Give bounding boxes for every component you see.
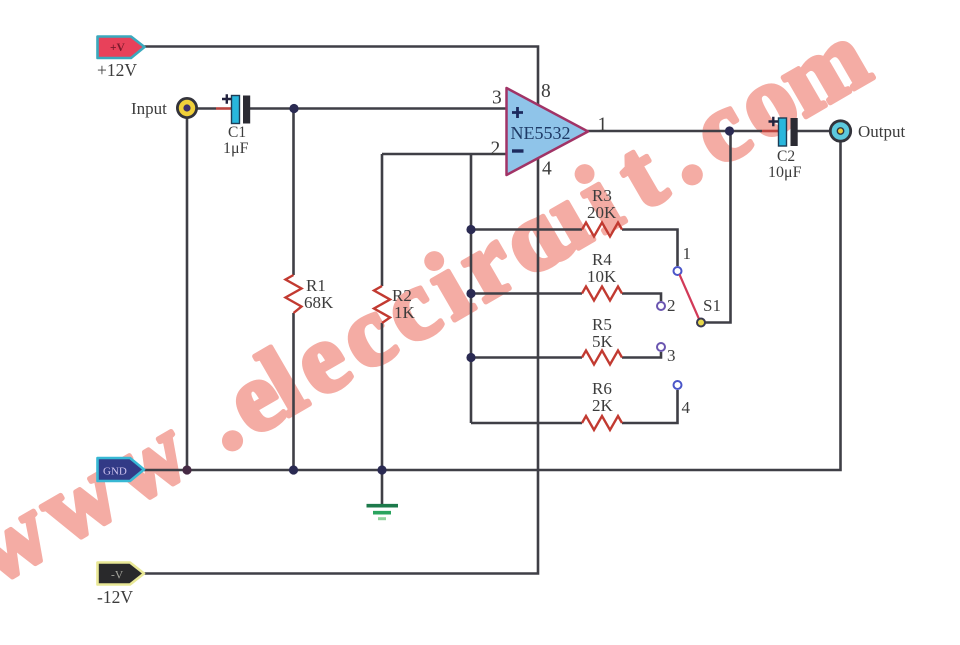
svg-text:-12V: -12V bbox=[97, 587, 133, 607]
wire R1 branch vertical bbox=[292, 109, 295, 471]
wire R3 row bbox=[471, 230, 678, 267]
svg-text:1: 1 bbox=[598, 115, 608, 136]
switch S1 bbox=[657, 244, 721, 417]
wire GND rail to output jack ground bbox=[144, 141, 841, 470]
wire red stub at C1 positive bbox=[216, 107, 231, 110]
node junction output branch bbox=[725, 126, 734, 135]
wire R5 row bbox=[471, 352, 661, 358]
resistor R1 bbox=[286, 275, 335, 313]
+V power tag bbox=[98, 37, 145, 59]
wire R6 row bbox=[471, 390, 678, 423]
svg-text:3: 3 bbox=[667, 346, 676, 365]
node junction R4 tap bbox=[466, 289, 475, 298]
resistor R3 bbox=[582, 186, 622, 237]
wire switch common to output branch bbox=[705, 131, 731, 323]
svg-text:NE5532: NE5532 bbox=[511, 123, 571, 143]
wire C1 to pin3 bbox=[250, 107, 507, 110]
svg-text:4: 4 bbox=[542, 159, 552, 180]
wire +V rail to pin8 to pin4 to -V rail bbox=[144, 47, 538, 574]
switch contact 2 bbox=[657, 302, 665, 310]
svg-text:C1: C1 bbox=[228, 124, 246, 141]
svg-text:3: 3 bbox=[492, 88, 502, 109]
resistor R2 bbox=[374, 286, 416, 323]
svg-text:2K: 2K bbox=[592, 396, 614, 415]
svg-text:5K: 5K bbox=[592, 332, 614, 351]
ground symbol bbox=[367, 506, 399, 519]
svg-text:+V: +V bbox=[110, 42, 126, 54]
node junction R3 tap bbox=[466, 225, 475, 234]
wire feedback rail bbox=[470, 154, 473, 423]
node junction input ground bbox=[182, 465, 191, 474]
resistor R5 bbox=[582, 315, 622, 365]
-V power tag bbox=[98, 563, 145, 585]
switch common contact bbox=[697, 319, 705, 327]
wire red stub at C2 positive bbox=[762, 130, 778, 133]
node junction after C1 bbox=[289, 104, 298, 113]
svg-text:GND: GND bbox=[103, 466, 127, 478]
svg-text:C2: C2 bbox=[777, 148, 795, 165]
resistor R4 bbox=[582, 250, 622, 301]
svg-text:1K: 1K bbox=[394, 303, 416, 322]
wire C2 to output jack bbox=[798, 130, 831, 133]
node junction R1 ground bbox=[289, 465, 298, 474]
wire input jack ground drop bbox=[186, 117, 189, 470]
svg-text:-V: -V bbox=[111, 570, 124, 582]
GND power tag bbox=[98, 458, 145, 481]
svg-text:Output: Output bbox=[858, 122, 906, 141]
switch contact 1 bbox=[674, 267, 682, 275]
svg-text:20K: 20K bbox=[587, 203, 617, 222]
switch lever bbox=[680, 275, 700, 320]
svg-text:68K: 68K bbox=[304, 293, 334, 312]
input jack connector bbox=[177, 98, 196, 117]
svg-text:8: 8 bbox=[541, 81, 551, 102]
wire pin2 to R2 bbox=[382, 153, 507, 156]
svg-text:2: 2 bbox=[491, 139, 501, 160]
svg-text:1: 1 bbox=[683, 244, 692, 263]
svg-text:4: 4 bbox=[682, 398, 691, 417]
wire input jack to C1 bbox=[196, 107, 216, 110]
capacitor C2 bbox=[768, 117, 802, 181]
svg-text:1μF: 1μF bbox=[223, 140, 249, 157]
capacitor C1 bbox=[222, 94, 250, 157]
resistor R6 bbox=[582, 379, 622, 430]
output jack connector bbox=[830, 121, 850, 141]
svg-text:+12V: +12V bbox=[97, 60, 137, 80]
wire R2 vertical bbox=[381, 154, 384, 470]
wire op-amp output to C2 bbox=[587, 130, 762, 133]
op-amp U1 NE5532 bbox=[507, 88, 589, 175]
node junction R5 tap bbox=[466, 353, 475, 362]
svg-text:S1: S1 bbox=[703, 296, 721, 315]
svg-text:2: 2 bbox=[667, 296, 676, 315]
svg-text:10μF: 10μF bbox=[768, 164, 802, 181]
wire ground symbol stub bbox=[381, 470, 384, 504]
svg-text:Input: Input bbox=[131, 99, 167, 118]
wire R4 row bbox=[471, 294, 661, 302]
switch contact 4 bbox=[674, 381, 682, 389]
switch contact 3 bbox=[657, 343, 665, 351]
node junction R2 ground bbox=[377, 465, 386, 474]
svg-text:10K: 10K bbox=[587, 267, 617, 286]
